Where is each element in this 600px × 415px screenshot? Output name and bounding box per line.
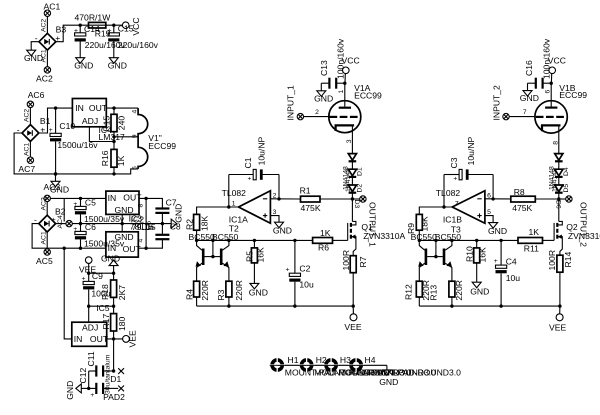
wire VEE node to GND node xyxy=(89,272,114,274)
svg-text:C13: C13 xyxy=(319,60,329,76)
terminal AC7 xyxy=(18,157,35,174)
wire C11 to C12 column xyxy=(88,371,90,388)
ground (holes) xyxy=(379,365,398,387)
junction xyxy=(227,205,230,208)
svg-text:AC7: AC7 xyxy=(18,164,35,174)
resistor R7 100R xyxy=(341,250,368,306)
op-amp IC1A TL082 xyxy=(222,188,271,234)
svg-text:OUT: OUT xyxy=(89,103,108,113)
junction xyxy=(450,239,453,242)
transistor T3b BC550 xyxy=(436,240,452,281)
resistor R19 470R/1W xyxy=(75,12,134,38)
junction xyxy=(277,197,280,200)
resistor R4 220R xyxy=(185,280,210,306)
svg-text:220u/160v: 220u/160v xyxy=(118,40,159,50)
supply VEE (ch1) xyxy=(344,306,361,332)
diode D3 1N4148 xyxy=(348,185,360,208)
svg-text:8: 8 xyxy=(138,204,145,208)
resistor R2 18K xyxy=(184,214,209,240)
wire bottom rail to heater pin 5 xyxy=(56,169,139,174)
capacitor C11 30u/tantalum xyxy=(86,351,113,394)
wire vertical between outs xyxy=(145,198,147,248)
svg-text:AC2: AC2 xyxy=(36,74,53,84)
svg-text:ADJ: ADJ xyxy=(82,322,98,332)
hole H2 MOUNT-PAD-ROUND3.0 xyxy=(299,355,412,378)
svg-text:IN: IN xyxy=(108,243,117,253)
resistor R18 2K7 xyxy=(100,273,127,306)
transistor T2b BC550 xyxy=(213,240,229,281)
capacitor C3 10u/NP xyxy=(444,136,493,207)
svg-text:220R: 220R xyxy=(454,280,464,301)
junction xyxy=(491,197,494,200)
svg-text:475K: 475K xyxy=(301,203,321,213)
wire bottom rail ch1 xyxy=(197,305,354,307)
svg-text:9: 9 xyxy=(131,134,138,138)
svg-text:D2: D2 xyxy=(357,184,364,193)
svg-text:C12: C12 xyxy=(78,368,88,384)
wire cathode to diodes xyxy=(351,125,353,153)
svg-text:PAD2: PAD2 xyxy=(103,392,125,402)
wire branch to AC4 area xyxy=(63,198,65,221)
resistor R15 240 xyxy=(111,108,127,149)
junction xyxy=(144,197,147,200)
wire mirror rail ch2 xyxy=(419,239,518,241)
supply VEE (ch2) xyxy=(549,306,566,332)
supply VCC (V1B) xyxy=(548,56,566,84)
junction (bases) xyxy=(211,255,214,258)
svg-text:C11: C11 xyxy=(86,351,96,366)
ground (mid rail, sideways) xyxy=(171,204,183,228)
wire IC2 OUT rail xyxy=(139,197,161,199)
svg-text:AC5: AC5 xyxy=(36,256,53,266)
svg-text:C16: C16 xyxy=(524,60,534,76)
junction xyxy=(253,239,256,242)
svg-text:GND: GND xyxy=(314,93,333,103)
svg-text:18K: 18K xyxy=(200,215,210,231)
svg-text:VEE: VEE xyxy=(549,322,566,332)
capacitor C14 220u/160v xyxy=(74,25,126,58)
wire IC4 OUT to heater xyxy=(106,107,138,109)
diode D6 1N4148 xyxy=(555,185,563,209)
junction xyxy=(211,239,214,242)
svg-text:10u/NP: 10u/NP xyxy=(256,136,266,165)
svg-text:220R: 220R xyxy=(234,280,244,301)
ground (C16) xyxy=(520,83,539,103)
svg-text:R1: R1 xyxy=(300,186,311,196)
wire anode stem xyxy=(550,83,552,106)
svg-text:C6: C6 xyxy=(85,222,96,232)
svg-text:ADJ: ADJ xyxy=(82,116,98,126)
svg-text:R3: R3 xyxy=(216,289,226,300)
capacitor C4 10u xyxy=(494,240,520,306)
capacitor C15 220u/160v xyxy=(108,25,159,58)
junction xyxy=(558,304,561,307)
ground (B3 minus) xyxy=(24,50,43,63)
svg-text:VCC: VCC xyxy=(131,17,141,35)
svg-text:AC2: AC2 xyxy=(24,109,31,122)
terminal INPUT_1 xyxy=(286,85,304,121)
transistor T3a BC550 xyxy=(418,240,436,281)
wire anode stem xyxy=(344,83,346,106)
unrouted X (PAD2) xyxy=(103,386,125,403)
svg-text:GND: GND xyxy=(520,93,539,103)
svg-text:INPUT_2: INPUT_2 xyxy=(491,85,501,121)
wire B3 to AC2 terminal xyxy=(46,50,48,67)
junction xyxy=(54,106,57,109)
hole H3 MOUNT-PAD-ROUND3.0 xyxy=(324,355,437,378)
junction xyxy=(112,172,115,175)
junction xyxy=(144,247,147,250)
terminal AC4 xyxy=(66,220,72,226)
junction xyxy=(112,140,115,143)
bridge rectifier B3 xyxy=(35,24,67,50)
supply VCC (V1A) xyxy=(342,56,360,84)
svg-text:R14: R14 xyxy=(563,252,573,268)
svg-text:R12: R12 xyxy=(404,284,414,300)
terminal AC1 xyxy=(44,2,61,17)
svg-text:+: + xyxy=(51,215,56,225)
unrouted X (D1) xyxy=(110,368,124,384)
svg-text:5: 5 xyxy=(131,166,138,170)
svg-text:ZVN3310A: ZVN3310A xyxy=(363,231,405,241)
ground (C13) xyxy=(314,83,333,103)
wire AC1 to bridge B3 xyxy=(46,16,48,33)
svg-text:-: - xyxy=(34,215,37,225)
svg-text:B2: B2 xyxy=(55,207,66,217)
resistor R9 18K xyxy=(406,214,430,240)
op IC3 79L15 xyxy=(106,232,142,257)
junction xyxy=(54,172,57,175)
junction xyxy=(112,135,115,138)
svg-text:100n/160v: 100n/160v xyxy=(335,38,345,79)
svg-text:R13: R13 xyxy=(429,285,439,301)
svg-text:AC3: AC3 xyxy=(44,182,61,192)
svg-text:H4: H4 xyxy=(365,355,376,365)
svg-text:GND: GND xyxy=(379,377,398,387)
junction xyxy=(87,305,90,308)
ground (pad, sideways) xyxy=(65,381,96,400)
hole H4 MOUNT-PAD-ROUND3.0 xyxy=(349,355,462,378)
svg-text:C2: C2 xyxy=(299,263,310,273)
supply VCC (PSU1) xyxy=(122,17,140,35)
capacitor C10 1500u/16v xyxy=(49,108,99,174)
svg-text:470R/1W: 470R/1W xyxy=(75,12,112,22)
junction xyxy=(352,304,355,307)
svg-text:C3: C3 xyxy=(449,157,459,168)
wire VEE node down to C11 xyxy=(113,339,115,371)
svg-text:GND: GND xyxy=(173,204,183,223)
ground (above R18, inverted) xyxy=(101,254,120,274)
svg-text:GND: GND xyxy=(470,287,489,297)
capacitor C6 1500u/35v xyxy=(73,222,125,248)
svg-text:GND: GND xyxy=(273,225,292,235)
wire B2 right to mid rail xyxy=(56,223,66,225)
svg-text:7: 7 xyxy=(523,109,527,116)
svg-text:C9: C9 xyxy=(92,271,103,281)
capacitor C13 100n/160v xyxy=(319,38,346,89)
svg-text:AC6: AC6 xyxy=(28,90,45,100)
resistor R6 1K xyxy=(313,228,348,252)
svg-text:AC4: AC4 xyxy=(57,215,64,228)
junction xyxy=(293,239,296,242)
junction xyxy=(343,82,346,85)
wire pin5 to GND xyxy=(485,216,493,223)
bridge rectifier B1 xyxy=(17,116,51,141)
capacitor C8 xyxy=(146,222,181,249)
hole H1 MOUNT-PAD-ROUND3.0 xyxy=(270,355,383,378)
svg-text:1K: 1K xyxy=(529,227,540,237)
junction xyxy=(499,304,502,307)
junction xyxy=(550,82,553,85)
wire C9 to R18 bottom xyxy=(89,305,114,307)
diode D1 1N4148 xyxy=(342,154,363,192)
junction xyxy=(87,272,90,275)
svg-text:100n/160v: 100n/160v xyxy=(542,38,552,79)
ground (C14) xyxy=(74,58,93,71)
diode D5 1N4148 xyxy=(555,169,570,192)
junction xyxy=(87,387,90,390)
op IC5 LM337 xyxy=(72,322,109,346)
svg-text:1: 1 xyxy=(338,90,345,94)
svg-text:ECC99: ECC99 xyxy=(354,90,382,100)
junction xyxy=(112,369,115,372)
svg-text:IC5: IC5 xyxy=(96,303,110,313)
wire B2 bottom to AC5 xyxy=(46,232,48,249)
junction xyxy=(112,24,115,27)
wire B1 to AC7 terminal xyxy=(29,141,31,157)
wire AC6 to bridge B1 xyxy=(29,108,31,125)
svg-text:TL082: TL082 xyxy=(222,188,247,198)
capacitor C5 1500u/35v xyxy=(73,198,125,225)
wire B3 plus to VCC rail xyxy=(56,25,123,42)
junction xyxy=(161,222,164,225)
svg-text:6: 6 xyxy=(544,90,551,94)
supply VEE (IC5 out) xyxy=(123,330,138,347)
svg-text:D6: D6 xyxy=(555,200,562,209)
svg-text:AC1: AC1 xyxy=(24,143,31,156)
svg-text:H1: H1 xyxy=(288,355,299,365)
wire bottom rail ch2 xyxy=(419,305,560,307)
svg-text:OUT: OUT xyxy=(123,193,142,203)
svg-text:IN: IN xyxy=(75,103,84,113)
svg-text:+: + xyxy=(453,175,457,182)
svg-text:AC1: AC1 xyxy=(41,231,48,244)
svg-text:D5: D5 xyxy=(563,184,570,193)
resistor R13 220R xyxy=(429,280,464,306)
capacitor C16 100n/160v xyxy=(524,38,552,89)
junction xyxy=(434,239,437,242)
wire input to grid xyxy=(304,116,329,118)
resistor R12 220R xyxy=(404,280,432,306)
resistor R16 1K xyxy=(100,149,126,174)
svg-text:4: 4 xyxy=(138,239,145,243)
wire bases to rail xyxy=(435,240,437,256)
junction xyxy=(475,239,478,242)
svg-text:R5: R5 xyxy=(244,251,254,262)
svg-text:10u: 10u xyxy=(506,273,521,283)
junction xyxy=(62,247,65,250)
ground (IC1B +) xyxy=(488,223,507,236)
wire B1 minus loop to bottom rail xyxy=(14,133,55,174)
junction xyxy=(557,197,560,200)
svg-text:100R: 100R xyxy=(547,250,557,271)
svg-text:240: 240 xyxy=(117,116,127,131)
capacitor C1 10u/NP xyxy=(229,136,279,207)
svg-text:7: 7 xyxy=(455,201,459,208)
terminal AC2 xyxy=(36,67,53,84)
svg-text:R15: R15 xyxy=(102,116,112,132)
svg-text:R8: R8 xyxy=(514,187,525,197)
wire heater pin 9 xyxy=(114,136,138,138)
wire IC4 ADJ xyxy=(89,127,114,142)
diode D4 1N4148 xyxy=(549,154,570,192)
svg-text:IN: IN xyxy=(74,334,83,344)
resistor R10 16K xyxy=(465,240,488,282)
wire IC5 OUT to VEE xyxy=(107,338,123,340)
svg-text:R18: R18 xyxy=(100,284,110,300)
svg-text:16K: 16K xyxy=(255,247,265,263)
capacitor C9 100u xyxy=(82,271,111,306)
svg-text:C4: C4 xyxy=(506,257,517,267)
wire B1 plus to IC4 IN xyxy=(39,108,73,133)
resistor R11 1K xyxy=(518,227,554,253)
ground (R5) xyxy=(249,283,268,297)
svg-text:220R: 220R xyxy=(200,280,210,301)
svg-text:475K: 475K xyxy=(512,203,532,213)
svg-text:C1: C1 xyxy=(243,157,253,168)
junction xyxy=(293,304,296,307)
svg-text:1K: 1K xyxy=(320,228,331,238)
junction xyxy=(79,222,82,225)
junction xyxy=(418,239,421,242)
svg-text:R6: R6 xyxy=(318,242,329,252)
bridge rectifier B2 xyxy=(34,207,66,233)
terminal OUTPUT_2 xyxy=(559,196,589,247)
supply VEE (filter) xyxy=(79,257,96,282)
wire AC3 to bridge B2 xyxy=(46,202,48,216)
svg-text:D1: D1 xyxy=(110,374,121,384)
svg-text:TL082: TL082 xyxy=(436,188,461,198)
svg-text:GND: GND xyxy=(488,226,507,236)
junction xyxy=(79,247,82,250)
svg-text:10u/NP: 10u/NP xyxy=(466,136,476,165)
svg-text:1K: 1K xyxy=(116,155,126,166)
junction xyxy=(79,197,82,200)
resistor R8 475K xyxy=(511,187,559,213)
junction xyxy=(351,197,354,200)
capacitor C2 10u xyxy=(286,240,314,306)
svg-text:IN: IN xyxy=(108,193,117,203)
wire IC3 OUT xyxy=(138,247,146,249)
wire node to IC5 ADJ xyxy=(88,306,90,322)
junction xyxy=(121,222,124,225)
junction xyxy=(227,304,230,307)
svg-text:OUT: OUT xyxy=(123,244,142,254)
ground (IC1A +) xyxy=(273,222,292,235)
svg-text:ECC99: ECC99 xyxy=(148,141,176,151)
junction xyxy=(79,24,82,27)
junction xyxy=(450,304,453,307)
junction xyxy=(112,106,115,109)
svg-text:R16: R16 xyxy=(100,150,110,166)
svg-text:IC1B: IC1B xyxy=(443,214,462,224)
svg-text:10u: 10u xyxy=(299,280,314,290)
wire pin1 to R2 xyxy=(197,207,239,214)
wire mirror rail xyxy=(197,239,313,241)
svg-text:ECC99: ECC99 xyxy=(559,90,587,100)
wire input to grid xyxy=(509,116,535,118)
svg-text:+: + xyxy=(286,267,290,274)
wire pin2 to R1 xyxy=(270,198,300,200)
wire cathode to diodes xyxy=(558,125,560,153)
svg-text:INPUT_1: INPUT_1 xyxy=(286,85,296,121)
svg-text:GND: GND xyxy=(115,232,134,242)
svg-text:GND: GND xyxy=(108,61,127,71)
junction (bases) xyxy=(434,255,437,258)
op IC2 78L15 xyxy=(106,191,156,232)
resistor R5 16K xyxy=(244,240,265,283)
svg-text:+: + xyxy=(90,392,94,399)
svg-text:AC2: AC2 xyxy=(41,197,48,210)
op IC4 LM317 xyxy=(72,99,125,142)
svg-text:16K: 16K xyxy=(478,247,488,263)
wire mid rail xyxy=(72,223,171,225)
svg-text:2K7: 2K7 xyxy=(117,285,127,301)
junction xyxy=(112,337,115,340)
svg-text:GND: GND xyxy=(24,53,43,63)
svg-text:AC2: AC2 xyxy=(41,19,48,32)
wire bases to rail xyxy=(212,240,214,256)
terminal INPUT_2 xyxy=(491,85,509,121)
capacitor C7 xyxy=(155,198,176,224)
junction xyxy=(227,239,230,242)
op-amp IC1B TL082 xyxy=(436,188,485,234)
capacitor C12 30u/tantalum xyxy=(78,368,118,399)
resistor R3 220R xyxy=(216,280,244,306)
junction xyxy=(499,239,502,242)
junction xyxy=(112,272,115,275)
svg-text:GND: GND xyxy=(65,381,75,400)
wire B3 minus to GND xyxy=(31,42,39,51)
tube heater V1" ECC99 xyxy=(131,108,176,170)
svg-text:VEE: VEE xyxy=(127,330,137,347)
svg-text:6: 6 xyxy=(146,221,153,225)
terminal AC6 xyxy=(27,90,44,108)
tube V1B ECC99 xyxy=(535,83,587,133)
svg-text:+: + xyxy=(248,175,252,182)
resistor R1 475K xyxy=(300,186,353,213)
mosfet Q2 ZVN3310A xyxy=(554,199,600,255)
svg-text:OUT: OUT xyxy=(90,334,109,344)
ground (R10) xyxy=(470,282,489,296)
terminal AC3 xyxy=(44,182,61,202)
svg-text:GND: GND xyxy=(101,254,120,264)
svg-text:VEE: VEE xyxy=(344,322,361,332)
wire raw minus to IC5 IN xyxy=(64,248,72,339)
svg-text:GND: GND xyxy=(74,61,93,71)
svg-text:2: 2 xyxy=(315,109,319,116)
resistor R14 100R xyxy=(547,250,573,306)
wire pin3 to GND xyxy=(270,216,279,223)
wire pin6 to R8 xyxy=(485,198,511,200)
ground (AGND) xyxy=(50,172,69,194)
junction xyxy=(195,239,198,242)
resistor R17 180 xyxy=(101,306,127,339)
junction xyxy=(112,305,115,308)
ground (C15) xyxy=(108,58,127,71)
terminal OUTPUT_1 xyxy=(352,196,377,247)
wire holes rail xyxy=(277,364,387,366)
